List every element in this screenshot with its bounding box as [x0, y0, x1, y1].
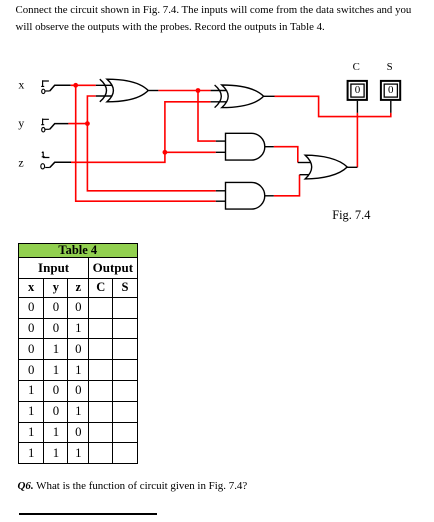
svg-text:S: S — [387, 61, 393, 73]
svg-text:0: 0 — [355, 84, 361, 96]
svg-text:y: y — [18, 116, 24, 130]
svg-text:x: x — [18, 78, 24, 92]
svg-text:Fig. 7.4: Fig. 7.4 — [332, 208, 370, 222]
svg-text:C: C — [353, 61, 360, 73]
svg-text:0: 0 — [388, 84, 394, 96]
svg-text:z: z — [18, 156, 23, 170]
